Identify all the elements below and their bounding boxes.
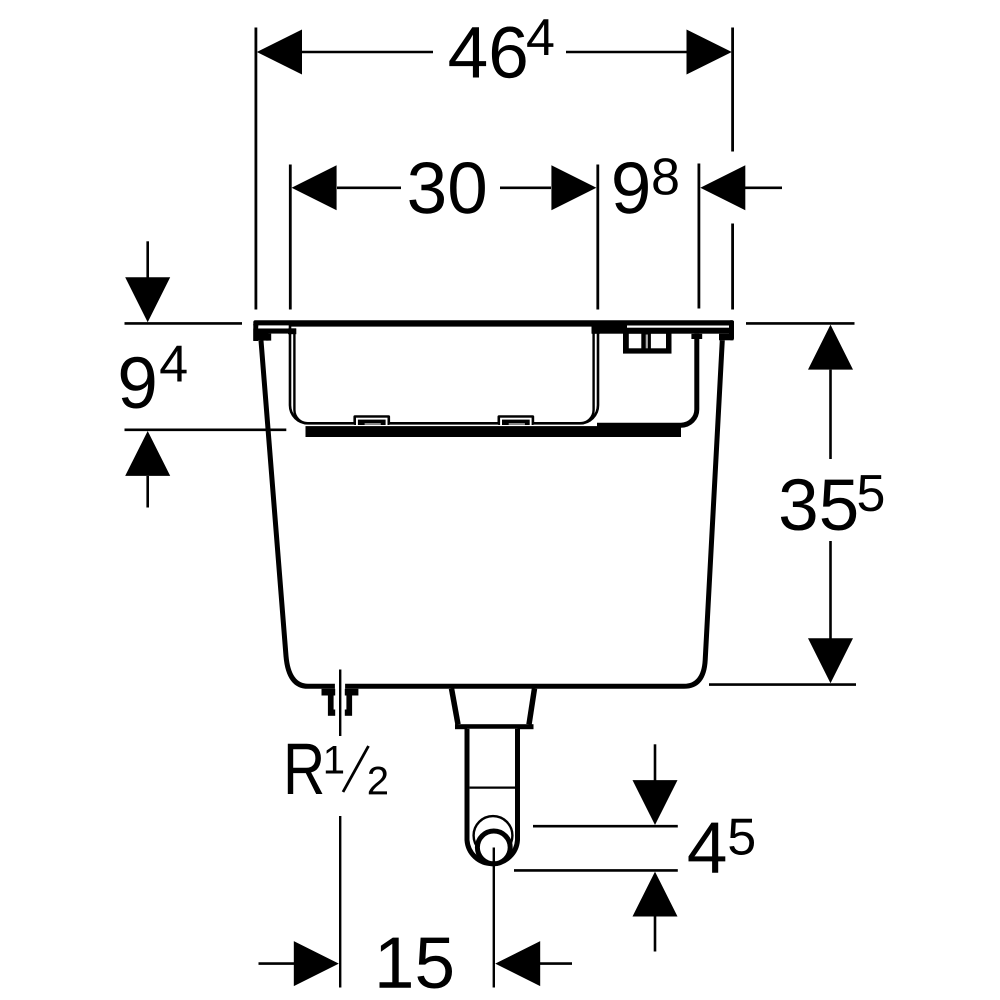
lid right cap <box>729 320 734 340</box>
dimension 9.8: value label 9 <box>614 162 648 214</box>
vessel right wall top patch <box>592 326 601 334</box>
flush elbow bold circle <box>477 831 510 864</box>
dimension 35.5: lower stem <box>829 541 832 639</box>
fill valve bracket window 1 <box>629 334 642 349</box>
dimension 46.4: dimension line left segment <box>299 51 433 54</box>
dimension 9.4: top extension line <box>125 322 243 325</box>
dimension 9.4: lower arrow stem <box>146 476 149 508</box>
supply nipple left flange <box>322 689 336 696</box>
lid left cap upper part <box>253 324 258 341</box>
dimension 46.4: right extension line lower segment <box>731 224 734 310</box>
right rim white sliver <box>627 326 729 328</box>
bottom tab 1 white inset <box>356 418 388 425</box>
label R 1/2: letter R <box>288 744 323 794</box>
flush pipe body <box>467 729 518 864</box>
supply nipple right neck <box>346 696 352 710</box>
left rim bar <box>258 328 296 333</box>
supply centerline upper segment <box>339 670 341 737</box>
bottom tab 1 core <box>358 420 386 425</box>
dimension 30: dimension line right segment <box>500 187 551 190</box>
bottom tab 1 outline <box>353 415 390 425</box>
lid left cap foot <box>266 334 271 341</box>
dimension 30: dimension line left segment <box>337 187 401 190</box>
supply nipple right flange <box>345 689 359 696</box>
lid right cap block <box>719 334 734 341</box>
dimension 9.4: superscript 4 <box>160 346 186 382</box>
dimension 46.4: superscript 4 <box>527 19 553 55</box>
dimension 35.5: bottom extension line <box>709 683 856 686</box>
outer casing body <box>261 340 722 686</box>
flush outlet trapezoid left side <box>452 689 459 725</box>
dimension 46.4: dimension line right segment <box>566 51 689 54</box>
dimension 9.8: right extension line <box>698 164 701 309</box>
inner compartment wall <box>597 334 697 425</box>
inner compartment wall top cap <box>691 334 702 339</box>
dimension 4.5: bottom extension line <box>514 869 678 872</box>
dimension 15: value label 15 <box>380 938 453 989</box>
lid left cap lower part <box>253 329 268 341</box>
dimension 30: value label 30 <box>409 162 485 214</box>
flush elbow thin circle <box>474 816 513 855</box>
dimension 9.8: tail line <box>745 187 782 190</box>
label R 1/2: numerator 1 <box>326 746 343 774</box>
lid top bar <box>253 320 734 326</box>
label R 1/2: denominator 2 <box>369 767 387 795</box>
dimension 35.5: superscript 5 <box>859 475 884 511</box>
dimension 9.4: bottom extension line <box>125 428 287 431</box>
vessel base band <box>306 426 682 437</box>
fill valve bracket body <box>623 328 672 353</box>
dimension 35.5: upper stem <box>829 370 832 459</box>
dimension 35.5: up arrowhead <box>808 325 853 370</box>
dimension 46.4: right arrowhead <box>687 30 732 75</box>
supply centerline lower segment <box>339 816 341 988</box>
dimension 15: right arrowhead pointing left <box>495 941 540 986</box>
dimension 9.4: up arrowhead <box>125 431 170 476</box>
water vessel outer outline <box>290 325 598 424</box>
label R 1/2: fraction slash <box>343 746 369 792</box>
dimension 30: right extension line <box>596 165 599 310</box>
flush outlet trapezoid right side <box>529 689 535 725</box>
dimension 30: left arrowhead <box>292 165 337 210</box>
supply nipple left foot <box>328 710 335 716</box>
vessel left wall top patch <box>288 328 296 334</box>
dimension 15: left tail line <box>259 962 297 965</box>
dimension 4.5: superscript 5 <box>729 819 754 855</box>
bottom tab 2 slit <box>509 423 525 425</box>
flush outlet collar bar <box>455 724 534 729</box>
dimension 46.4: right extension line upper segment <box>731 28 734 152</box>
dimension 4.5: upper arrow stem <box>654 744 657 781</box>
flush pipe seam line <box>470 786 515 788</box>
dimension 9.8: arrowhead pointing left <box>700 165 745 210</box>
fill valve bracket divider line <box>646 335 648 349</box>
bottom tab 1 slit <box>365 423 381 425</box>
water vessel inner outline <box>294 329 593 424</box>
supply nipple left neck <box>328 696 334 710</box>
dimension 4.5: down arrowhead <box>633 780 678 825</box>
bottom tab 2 core <box>502 420 530 425</box>
dimension 4.5: top extension line <box>533 825 678 828</box>
dimension 35.5: top extension line <box>746 322 855 325</box>
dimension 46.4: value label 46 <box>449 27 525 79</box>
dimension 46.4: left arrowhead <box>257 30 302 75</box>
dimension 4.5: up arrowhead <box>633 872 678 917</box>
right rim bar <box>592 326 731 334</box>
left rim white sliver <box>258 325 289 328</box>
bottom tab 2 outline <box>498 415 535 425</box>
supply nipple right foot <box>345 710 352 716</box>
flush pipe centerline <box>493 848 495 988</box>
dimension 9.8: superscript 8 <box>653 158 677 195</box>
dimension 46.4: left extension line <box>254 28 257 310</box>
dimension 9.4: upper arrow stem <box>146 241 149 279</box>
dimension 9.4: down arrowhead <box>125 277 170 322</box>
fill valve bracket window 2 <box>651 334 666 349</box>
dimension 35.5: down arrowhead <box>808 638 853 683</box>
supply opening gap in casing bottom <box>335 680 345 693</box>
dimension 15: left arrowhead pointing right <box>294 941 339 986</box>
dimension 15: right tail line <box>540 962 572 965</box>
dimension 30: right arrowhead <box>551 165 596 210</box>
dimension 4.5: value label 4 <box>689 823 726 873</box>
dimension 35.5: value label 35 <box>781 479 856 531</box>
dimension 30: left extension line <box>289 165 292 310</box>
dimension 9.4: value label 9 <box>121 357 155 409</box>
bottom tab 2 white inset <box>500 418 531 425</box>
dimension 4.5: lower arrow stem <box>654 917 657 952</box>
